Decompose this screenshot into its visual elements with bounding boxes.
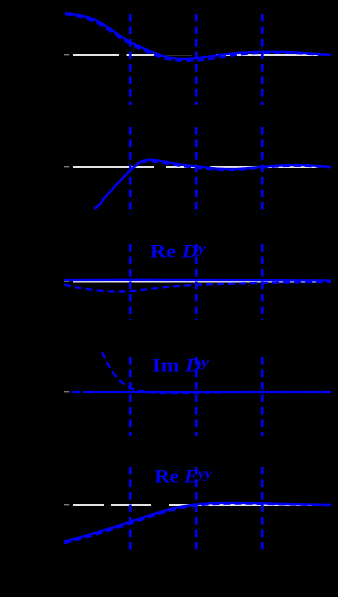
vertical dashed gridline panel 4 x=262.3	[261, 357, 264, 436]
zero line panel 3	[73, 281, 318, 283]
vertical dashed gridline panel 5 x=130.3	[129, 467, 132, 553]
zero line panel 5 lead dash	[64, 504, 69, 506]
zero line panel 1 lead dash	[64, 54, 69, 56]
vertical dashed gridline panel 2 x=130.3	[129, 127, 132, 215]
vertical dashed gridline panel 5 x=196.3	[195, 467, 198, 553]
vertical dashed gridline panel 1 x=130.3	[129, 14, 132, 105]
vertical dashed gridline panel 3 x=262.3	[261, 244, 264, 320]
black gap on zero line at x=151	[151, 503, 169, 507]
black gap on zero line at x=192	[192, 53, 216, 57]
vertical dashed gridline panel 2 x=196.3	[195, 127, 198, 215]
vertical dashed gridline panel 4 x=196.3	[195, 357, 198, 436]
panel 3 dashed curve	[64, 282, 331, 292]
svg-text:Im Dy: Im Dy	[152, 353, 210, 376]
vertical dashed gridline panel 2 x=262.3	[261, 127, 264, 215]
black gap on zero line at x=157	[157, 53, 192, 56]
vertical dashed gridline panel 1 x=196.3	[195, 14, 198, 105]
label Im D^y panel 4	[152, 353, 210, 376]
panel 4 dashed curve	[102, 352, 331, 393]
black gap on zero line at x=154	[154, 165, 166, 169]
vertical dashed gridline panel 3 x=130.3	[129, 244, 132, 320]
vertical dashed gridline panel 1 x=262.3	[261, 14, 264, 105]
black gap on zero line at x=119	[119, 53, 127, 57]
panel 1 solid curve	[65, 13, 331, 59]
panel 4 solid curve	[83, 391, 332, 393]
panel 4 line start dash	[72, 391, 81, 393]
zero line panel 1	[73, 54, 318, 56]
zero line panel 2 lead dash	[64, 166, 69, 168]
panel 5 solid curve	[64, 503, 331, 542]
label Re E^yy panel 5	[155, 466, 213, 487]
vertical dashed gridline panel 5 x=262.3	[261, 467, 264, 553]
panel 2 dashed curve	[94, 161, 331, 208]
zero line panel 5	[73, 504, 318, 506]
panel 5 dashed curve	[64, 504, 331, 544]
label Re D^y panel 3	[150, 239, 207, 262]
zero line panel 3 lead dash	[64, 280, 69, 282]
zero line panel 2	[73, 166, 318, 168]
vertical dashed gridline panel 4 x=130.3	[129, 357, 132, 436]
black gap on zero line at x=201	[201, 165, 210, 169]
zero line panel 4 lead dash	[64, 391, 69, 393]
panel 1 dashed curve	[65, 14, 331, 61]
panel 2 solid curve	[96, 160, 331, 207]
black gap on zero line at x=104	[104, 503, 111, 507]
panel 3 solid curve	[64, 279, 331, 282]
vertical dashed gridline panel 3 x=196.3	[195, 244, 198, 320]
